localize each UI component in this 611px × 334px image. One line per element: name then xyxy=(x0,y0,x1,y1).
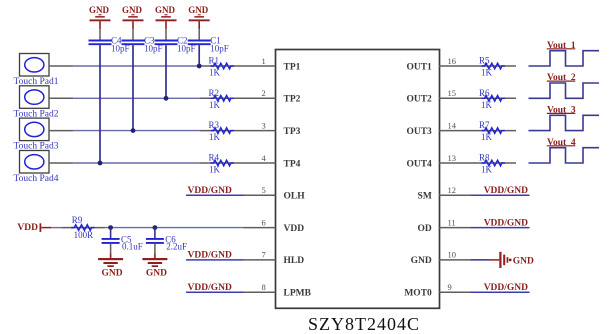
wire R9 to pin 6 (VDD net) xyxy=(105,227,244,229)
svg-text:GND: GND xyxy=(122,5,143,15)
svg-text:VDD: VDD xyxy=(17,223,38,233)
touch pad 1 pin wire xyxy=(49,65,73,67)
svg-text:6: 6 xyxy=(262,217,266,227)
touch pad sensor Touch Pad1 xyxy=(20,54,50,77)
resistor R3 designator xyxy=(209,120,220,130)
svg-text:SZY8T2404C: SZY8T2404C xyxy=(308,314,420,334)
resistor R9 designator xyxy=(72,215,83,225)
net label Touch Pad4 xyxy=(14,174,59,184)
svg-text:R1: R1 xyxy=(209,56,220,66)
svg-text:OUT1: OUT1 xyxy=(406,62,432,72)
wire pin 5 net xyxy=(186,194,244,196)
net label Touch Pad1 xyxy=(14,77,59,87)
pin 7 (HLD) stub, number and name xyxy=(244,250,305,267)
svg-text:VDD/GND: VDD/GND xyxy=(188,186,232,196)
capacitor C3 xyxy=(122,29,145,44)
svg-text:9: 9 xyxy=(448,282,452,292)
svg-text:VDD/GND: VDD/GND xyxy=(484,218,528,228)
touch pad sensor Touch Pad3 xyxy=(20,118,50,141)
IC part number label SZY8T2404C xyxy=(308,314,420,334)
capacitor C3 designator xyxy=(144,36,155,46)
resistor R8 designator xyxy=(479,153,490,163)
resistor R3 xyxy=(200,128,244,134)
svg-text:1K: 1K xyxy=(209,132,221,142)
pin 16 (OUT1) stub, number and name xyxy=(406,56,470,73)
pin 9 (MOT0) stub, number and name xyxy=(404,282,470,299)
pin 14 (OUT3) stub, number and name xyxy=(406,120,470,137)
waveform output Vout_1 square wave xyxy=(529,51,600,66)
ground symbol GND above C4 xyxy=(89,5,111,29)
resistor R1 designator xyxy=(209,56,220,66)
net label VDD/GND at pin 12 xyxy=(484,186,528,196)
svg-text:OD: OD xyxy=(418,224,432,234)
svg-text:R4: R4 xyxy=(209,153,220,163)
pin 10 (GND) stub, number and name xyxy=(411,250,471,267)
resistor R1 value 1K xyxy=(209,68,221,78)
svg-text:OUT4: OUT4 xyxy=(406,159,432,169)
wire C3 vertical to TP net xyxy=(132,45,134,131)
svg-text:R5: R5 xyxy=(479,56,490,66)
pin 13 (OUT4) stub, number and name xyxy=(406,153,470,170)
ground symbol GND below C6 xyxy=(142,254,167,279)
svg-text:R9: R9 xyxy=(72,215,83,225)
svg-text:1: 1 xyxy=(262,56,266,66)
pin 5 (OLH) stub, number and name xyxy=(244,185,306,202)
svg-text:OUT2: OUT2 xyxy=(406,95,432,105)
ground symbol GND above C1 xyxy=(188,5,210,29)
svg-text:MOT0: MOT0 xyxy=(404,289,432,299)
svg-text:VDD/GND: VDD/GND xyxy=(484,283,528,293)
svg-text:VDD/GND: VDD/GND xyxy=(188,283,232,293)
resistor R4 designator xyxy=(209,153,220,163)
resistor R8 value 1K xyxy=(481,165,493,175)
svg-text:HLD: HLD xyxy=(284,256,305,266)
wire pin 12 net xyxy=(471,194,530,196)
svg-text:100R: 100R xyxy=(74,230,94,240)
wire pin 10 to ground xyxy=(471,259,490,261)
svg-text:15: 15 xyxy=(448,88,457,98)
pin 11 (OD) stub, number and name xyxy=(418,217,471,234)
resistor R7 designator xyxy=(479,120,490,130)
wire pin 9 net xyxy=(471,291,530,293)
capacitor C5 value 0.1uF xyxy=(122,241,143,251)
net label VDD/GND at pin 7 xyxy=(188,251,232,261)
capacitor C5 xyxy=(102,228,120,254)
svg-text:TP4: TP4 xyxy=(284,159,301,169)
svg-text:GND: GND xyxy=(146,268,167,278)
svg-text:R7: R7 xyxy=(479,120,490,130)
svg-text:R6: R6 xyxy=(479,88,490,98)
ground symbol GND above C2 xyxy=(155,5,177,29)
wire C2 vertical to TP net xyxy=(165,45,167,98)
waveform output Vout_2 square wave xyxy=(529,83,600,98)
capacitor C2 value 10pF xyxy=(177,44,196,54)
resistor R2 designator xyxy=(209,88,220,98)
svg-text:1K: 1K xyxy=(481,100,493,110)
resistor R4 xyxy=(200,160,244,166)
junction VDD net at C6 xyxy=(153,225,158,230)
svg-text:4: 4 xyxy=(262,153,267,163)
svg-text:GND: GND xyxy=(411,256,432,266)
wire TP4 net horizontal xyxy=(73,162,200,164)
IC U1 SZY8T2404C body xyxy=(276,50,440,309)
touch pad sensor Touch Pad2 xyxy=(20,86,50,109)
svg-text:OLH: OLH xyxy=(284,192,306,202)
wire TP1 net horizontal xyxy=(73,65,200,67)
svg-text:TP1: TP1 xyxy=(284,62,301,72)
svg-text:2.2uF: 2.2uF xyxy=(166,241,187,251)
svg-text:VDD/GND: VDD/GND xyxy=(188,251,232,261)
pin 8 (LPMB) stub, number and name xyxy=(244,282,312,299)
svg-text:14: 14 xyxy=(448,120,457,130)
svg-text:R2: R2 xyxy=(209,88,220,98)
resistor R1 xyxy=(200,63,244,69)
svg-text:GND: GND xyxy=(155,5,176,15)
waveform output Vout_4 square wave xyxy=(529,148,600,163)
wire C1 vertical to TP net xyxy=(198,45,200,66)
resistor R4 value 1K xyxy=(209,165,221,175)
svg-text:1K: 1K xyxy=(481,68,493,78)
net label Vout_1 xyxy=(547,41,576,51)
wire pin 7 net xyxy=(186,259,244,261)
svg-text:13: 13 xyxy=(448,153,457,163)
capacitor C6 value 2.2uF xyxy=(166,241,187,251)
resistor R5 value 1K xyxy=(481,68,493,78)
svg-text:TP2: TP2 xyxy=(284,95,301,105)
svg-text:GND: GND xyxy=(89,5,110,15)
resistor R6 value 1K xyxy=(481,100,493,110)
wire TP2 net horizontal xyxy=(73,97,200,99)
power symbol VDD bar xyxy=(17,223,51,233)
wire VDD to R9 xyxy=(51,227,61,229)
capacitor C4 designator xyxy=(111,36,122,46)
net label VDD/GND at pin 5 xyxy=(188,186,232,196)
svg-text:1K: 1K xyxy=(481,165,493,175)
capacitor C4 xyxy=(89,29,112,44)
resistor R7 value 1K xyxy=(481,132,493,142)
svg-text:1K: 1K xyxy=(209,165,221,175)
resistor R2 xyxy=(200,96,244,102)
net label Vout_4 xyxy=(547,138,576,148)
svg-text:LPMB: LPMB xyxy=(284,289,312,299)
svg-text:VDD: VDD xyxy=(284,224,305,234)
svg-text:3: 3 xyxy=(262,120,266,130)
resistor R2 value 1K xyxy=(209,100,221,110)
capacitor C4 value 10pF xyxy=(111,44,130,54)
wire pin 11 net xyxy=(471,227,530,229)
svg-text:TP3: TP3 xyxy=(284,127,301,137)
resistor R9 xyxy=(61,225,104,231)
pin 1 (TP1) stub, number and name xyxy=(244,56,301,73)
svg-text:GND: GND xyxy=(188,5,209,15)
svg-text:GND: GND xyxy=(513,256,534,266)
pin 2 (TP2) stub, number and name xyxy=(244,88,301,105)
svg-text:16: 16 xyxy=(448,56,457,66)
capacitor C2 xyxy=(155,29,178,44)
junction C3 net xyxy=(131,128,136,133)
touch pad 2 pin wire xyxy=(49,97,73,99)
ground symbol GND above C3 xyxy=(122,5,144,29)
junction C1 net xyxy=(197,64,202,69)
junction VDD net at C5 xyxy=(108,225,113,230)
ground symbol GND at pin 10 (rotated) xyxy=(490,252,535,268)
capacitor C5 designator xyxy=(121,234,132,244)
capacitor C6 designator xyxy=(165,234,176,244)
pin 4 (TP4) stub, number and name xyxy=(244,153,301,170)
svg-text:SM: SM xyxy=(418,192,432,202)
touch pad 4 pin wire xyxy=(49,162,73,164)
svg-text:OUT3: OUT3 xyxy=(406,127,432,137)
net label VDD/GND at pin 8 xyxy=(188,283,232,293)
net label Touch Pad3 xyxy=(14,142,59,152)
svg-text:10pF: 10pF xyxy=(210,44,229,54)
touch pad sensor Touch Pad4 xyxy=(20,151,50,174)
capacitor C1 xyxy=(188,29,211,44)
svg-text:12: 12 xyxy=(448,185,457,195)
net label Touch Pad2 xyxy=(14,109,59,119)
net label Vout_2 xyxy=(547,73,576,83)
pin 3 (TP3) stub, number and name xyxy=(244,120,301,137)
svg-text:VDD/GND: VDD/GND xyxy=(484,186,528,196)
net label VDD/GND at pin 11 xyxy=(484,218,528,228)
capacitor C1 designator xyxy=(210,36,221,46)
resistor R6 xyxy=(471,96,517,102)
pin 12 (SM) stub, number and name xyxy=(418,185,471,202)
wire C4 vertical to TP net xyxy=(99,45,101,163)
svg-text:Touch Pad4: Touch Pad4 xyxy=(14,174,59,184)
wire pin 8 net xyxy=(186,291,244,293)
waveform output Vout_3 square wave xyxy=(529,115,600,130)
capacitor C3 value 10pF xyxy=(144,44,163,54)
svg-text:R8: R8 xyxy=(479,153,490,163)
svg-text:0.1uF: 0.1uF xyxy=(122,241,143,251)
resistor R9 value 100R xyxy=(74,230,94,240)
capacitor C6 xyxy=(146,228,164,254)
svg-text:10: 10 xyxy=(448,250,457,260)
resistor R5 xyxy=(471,63,517,69)
svg-text:5: 5 xyxy=(262,185,266,195)
svg-text:1K: 1K xyxy=(209,100,221,110)
ground symbol GND below C5 xyxy=(98,254,123,279)
resistor R3 value 1K xyxy=(209,132,221,142)
svg-text:8: 8 xyxy=(262,282,266,292)
junction C4 net xyxy=(98,161,103,166)
pin 6 (VDD) stub, number and name xyxy=(244,217,305,234)
svg-text:7: 7 xyxy=(262,250,266,260)
resistor R8 xyxy=(471,160,517,166)
net label VDD/GND at pin 9 xyxy=(484,283,528,293)
pin 15 (OUT2) stub, number and name xyxy=(406,88,470,105)
resistor R6 designator xyxy=(479,88,490,98)
svg-text:1K: 1K xyxy=(481,132,493,142)
svg-text:2: 2 xyxy=(262,88,266,98)
svg-text:1K: 1K xyxy=(209,68,221,78)
resistor R7 xyxy=(471,128,517,134)
capacitor C1 value 10pF xyxy=(210,44,229,54)
resistor R5 designator xyxy=(479,56,490,66)
junction C2 net xyxy=(164,96,169,101)
net label Vout_3 xyxy=(547,105,576,115)
capacitor C2 designator xyxy=(177,36,188,46)
svg-text:R3: R3 xyxy=(209,120,220,130)
wire TP3 net horizontal xyxy=(73,130,200,132)
touch pad 3 pin wire xyxy=(49,130,73,132)
svg-text:GND: GND xyxy=(102,268,123,278)
svg-text:11: 11 xyxy=(448,217,456,227)
